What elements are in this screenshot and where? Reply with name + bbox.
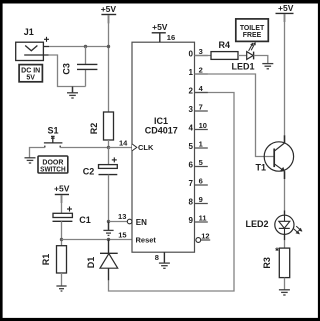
wire LED2 to R3 bbox=[284, 240, 286, 248]
svg-text:+5V: +5V bbox=[278, 3, 294, 13]
wire EN junction to bubble bbox=[109, 221, 128, 223]
pin 15 Reset bbox=[118, 231, 156, 245]
wire rail B down to T1 collector bbox=[284, 14, 286, 136]
wire junction down to C2 bbox=[108, 148, 110, 165]
svg-text:14: 14 bbox=[119, 139, 128, 148]
svg-text:9: 9 bbox=[189, 216, 194, 225]
label box TOILET FREE bbox=[236, 19, 268, 42]
svg-text:11: 11 bbox=[199, 214, 207, 223]
wire reset line bbox=[62, 239, 133, 241]
wire R4 to LED1 bbox=[238, 55, 247, 57]
pin 13 EN bubble bbox=[118, 212, 147, 227]
svg-text:6: 6 bbox=[199, 177, 203, 186]
svg-text:T1: T1 bbox=[256, 162, 267, 172]
svg-text:8: 8 bbox=[155, 253, 159, 262]
wire J1 bottom terminal down bbox=[49, 55, 86, 87]
power +5V symbol at C1 bbox=[54, 184, 70, 203]
IC IC1 CD4017 bbox=[132, 42, 195, 252]
svg-text:+5V: +5V bbox=[152, 22, 168, 32]
svg-text:10: 10 bbox=[199, 121, 207, 130]
pin 12 carry bubble bbox=[196, 231, 210, 242]
power +5V rail B symbol bbox=[276, 3, 294, 22]
label box DOOR SWITCH bbox=[38, 156, 68, 174]
svg-text:IC1: IC1 bbox=[154, 116, 168, 126]
resistor R4 bbox=[211, 40, 238, 59]
wire S1 right to junction bbox=[60, 147, 108, 149]
pin labels inside 0-9 bbox=[189, 50, 194, 226]
svg-text:6: 6 bbox=[189, 161, 194, 170]
wire R1 bottom to ground bbox=[61, 273, 63, 286]
node junction reset/C1/R1 bbox=[60, 238, 63, 241]
wire C1 bottom to reset junction and R1 bbox=[61, 221, 63, 245]
svg-text:SWITCH: SWITCH bbox=[40, 167, 66, 174]
ground (S1) bbox=[25, 158, 36, 163]
wire T1 emitter to LED2 bbox=[284, 179, 286, 210]
transistor T1 bbox=[256, 135, 294, 179]
svg-text:+5V: +5V bbox=[101, 4, 117, 14]
wire rail A vertical to R2 bbox=[108, 15, 110, 112]
svg-text:9: 9 bbox=[199, 195, 203, 204]
border frame bbox=[0, 0, 320, 4]
svg-text:R1: R1 bbox=[41, 254, 51, 266]
capacitor C2 bbox=[83, 157, 118, 176]
svg-text:R4: R4 bbox=[219, 40, 231, 50]
svg-text:2: 2 bbox=[189, 87, 194, 96]
svg-text:13: 13 bbox=[118, 212, 126, 221]
wire +5V to C1 bbox=[61, 195, 63, 213]
svg-text:16: 16 bbox=[167, 33, 175, 42]
ground (LED1) bbox=[262, 64, 273, 69]
svg-text:7: 7 bbox=[199, 103, 203, 112]
resistor R2 bbox=[89, 112, 114, 140]
svg-text:+5V: +5V bbox=[54, 184, 70, 194]
wire J1 top to rail bbox=[49, 46, 109, 48]
ground (J1/C3) bbox=[67, 87, 78, 99]
svg-text:Reset: Reset bbox=[136, 235, 157, 244]
wire LED1 to ground bbox=[254, 56, 268, 64]
wire output1 to T1 base bbox=[195, 74, 275, 157]
node junction CLK net bbox=[107, 146, 110, 149]
svg-text:EN: EN bbox=[136, 218, 147, 227]
svg-text:1: 1 bbox=[199, 140, 203, 149]
svg-text:2: 2 bbox=[199, 66, 203, 75]
svg-text:C3: C3 bbox=[61, 63, 71, 75]
pin 8 ground bbox=[155, 252, 170, 268]
connector J1 bbox=[16, 27, 49, 61]
svg-text:12: 12 bbox=[201, 231, 209, 240]
svg-text:5V: 5V bbox=[26, 75, 35, 82]
svg-text:8: 8 bbox=[189, 198, 194, 207]
svg-text:DC IN: DC IN bbox=[21, 67, 40, 74]
resistor R1 bbox=[41, 246, 67, 273]
ground (EN/C2) bbox=[103, 230, 113, 235]
wire S1 left to ground bbox=[30, 148, 45, 158]
svg-text:TOILET: TOILET bbox=[240, 25, 265, 32]
power +5V rail A symbol bbox=[101, 4, 117, 23]
resistor R3 bbox=[262, 246, 290, 278]
svg-text:DOOR: DOOR bbox=[42, 159, 63, 166]
capacitor C3 bbox=[61, 63, 97, 75]
wire C3 branch bbox=[85, 47, 87, 65]
svg-text:4: 4 bbox=[189, 124, 194, 133]
pin stubs outputs 0-9 bbox=[195, 56, 208, 223]
svg-text:R3: R3 bbox=[262, 257, 272, 269]
svg-text:D1: D1 bbox=[86, 257, 96, 269]
svg-text:3: 3 bbox=[189, 105, 194, 114]
node junction D1/reset bbox=[107, 238, 110, 241]
svg-text:5: 5 bbox=[199, 158, 203, 167]
diode D1 bbox=[86, 240, 118, 281]
label box DC IN 5V bbox=[19, 65, 42, 82]
svg-text:R2: R2 bbox=[89, 123, 99, 135]
svg-text:S1: S1 bbox=[47, 125, 58, 135]
svg-text:LED1: LED1 bbox=[231, 61, 254, 71]
wire EN junction to ground bbox=[108, 222, 110, 231]
svg-text:CD4017: CD4017 bbox=[145, 126, 178, 136]
wire D1 bottom to output2 loop bbox=[109, 93, 235, 292]
pin numbers outside bbox=[199, 47, 207, 223]
LED LED2 bbox=[245, 210, 302, 240]
wire junction to CLK pin bbox=[109, 147, 133, 149]
wire R2 bottom to junction bbox=[108, 140, 110, 148]
ground (R1) bbox=[56, 286, 66, 291]
svg-text:LED2: LED2 bbox=[245, 219, 268, 229]
svg-text:15: 15 bbox=[118, 231, 126, 240]
wire R3 to ground bbox=[284, 278, 286, 290]
pin 14 CLK arrow bbox=[119, 139, 154, 153]
svg-text:5: 5 bbox=[189, 142, 194, 151]
node junction EN bbox=[107, 220, 110, 223]
node junction rail A / J1 bbox=[107, 45, 110, 48]
svg-text:3: 3 bbox=[199, 47, 203, 56]
svg-text:C2: C2 bbox=[83, 167, 95, 177]
capacitor C1 bbox=[53, 207, 91, 225]
svg-text:1: 1 bbox=[189, 68, 194, 77]
svg-text:0: 0 bbox=[189, 50, 194, 59]
node junction C3 top bbox=[84, 45, 87, 48]
svg-text:7: 7 bbox=[189, 179, 194, 188]
svg-text:FREE: FREE bbox=[243, 32, 262, 39]
LED LED1 bbox=[231, 43, 255, 72]
svg-text:CLK: CLK bbox=[138, 143, 154, 152]
wire output0 to R4 bbox=[195, 55, 212, 57]
svg-text:C1: C1 bbox=[79, 215, 91, 225]
power +5V symbol pin 16 bbox=[152, 22, 175, 42]
svg-text:J1: J1 bbox=[24, 27, 34, 37]
switch S1 bbox=[44, 125, 63, 147]
ground (R3) bbox=[279, 290, 290, 295]
svg-text:*: * bbox=[275, 246, 279, 257]
wire C2 bottom to EN junction bbox=[108, 175, 110, 222]
